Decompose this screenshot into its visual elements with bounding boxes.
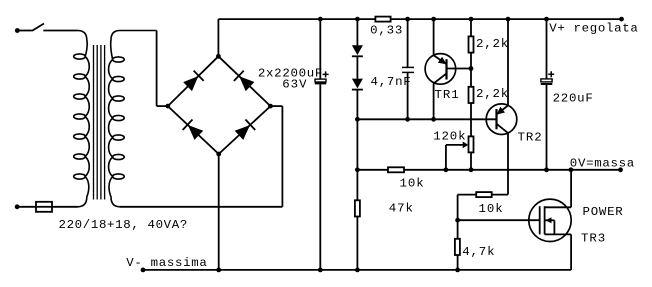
diode D5: [352, 45, 363, 55]
wire: [492, 194, 508, 196]
diode D4 (bridge bottom-right): [235, 125, 250, 140]
svg-text:220/18+18, 40VA?: 220/18+18, 40VA?: [59, 218, 188, 232]
wire: [470, 53, 472, 87]
wire: [17, 30, 32, 32]
node 0V terminal: [618, 167, 623, 172]
wire TR2 emitter: [507, 19, 509, 105]
wire: [271, 105, 283, 107]
wire V+ rail: [218, 18, 375, 20]
wire: [156, 31, 158, 107]
TR3 drain stub: [545, 206, 572, 208]
wire: [217, 19, 219, 56]
wire: [546, 19, 548, 79]
node: [431, 117, 436, 122]
wire: [17, 206, 36, 208]
svg-text:10k: 10k: [479, 202, 503, 216]
svg-text:4,7k: 4,7k: [462, 245, 494, 259]
svg-text:TR1: TR1: [435, 88, 459, 102]
node: [318, 268, 323, 273]
node: [216, 268, 221, 273]
svg-text:TR3: TR3: [581, 232, 605, 246]
node: [405, 17, 410, 22]
TR3 substrate arrow: [545, 219, 554, 221]
diode D2 (bridge top-right): [239, 76, 254, 91]
TR1 emitter arrow: [438, 57, 447, 65]
TR2 collector diagonal: [497, 124, 509, 133]
node: [431, 17, 436, 22]
wire TR3 drain: [570, 170, 572, 208]
polarity + C1: [323, 71, 329, 77]
wire: [356, 56, 358, 78]
svg-text:TR2: TR2: [518, 130, 542, 144]
diode D3 (bridge bottom-left): [188, 125, 203, 140]
wire: [52, 206, 78, 208]
transformer T1 core: [94, 45, 105, 200]
resistor R5 10k: [388, 167, 404, 172]
wire: [319, 19, 321, 79]
node: [469, 17, 474, 22]
node: [444, 167, 449, 172]
svg-text:V- massima: V- massima: [126, 256, 207, 270]
switch S1 blade: [32, 24, 44, 31]
trimmer R4 120k body: [469, 136, 474, 152]
transformer T1 primary winding: [78, 31, 90, 207]
fuse F1: [36, 202, 52, 212]
svg-text:47k: 47k: [389, 202, 413, 216]
svg-text:220uF: 220uF: [553, 92, 593, 106]
TR3 gate bar: [539, 206, 541, 234]
polarity + C3: [548, 71, 554, 77]
node: [355, 117, 360, 122]
node V- terminal: [141, 268, 146, 273]
wire: [281, 106, 283, 207]
wire TR2 collector: [507, 133, 509, 195]
node bridge left: [165, 104, 170, 109]
wire: [407, 19, 409, 67]
TR1 collector diagonal: [434, 73, 447, 83]
wire: [356, 90, 358, 120]
svg-text:V+ regolata: V+ regolata: [549, 22, 638, 36]
wire: [470, 19, 472, 36]
node: [355, 17, 360, 22]
wire: [407, 72, 409, 119]
fuse F1 terminal: [15, 204, 20, 209]
wire: [218, 154, 220, 270]
TR3 source stub: [545, 233, 572, 235]
node: [405, 117, 410, 122]
wire 0V: [357, 169, 388, 171]
node: [506, 17, 511, 22]
node: [544, 167, 549, 172]
diode D1 (bridge top-left): [183, 76, 198, 91]
svg-text:0,33: 0,33: [370, 24, 402, 38]
node V+ regolata terminal: [619, 17, 624, 22]
TR2 base bar: [495, 109, 497, 129]
resistor R1 0,33: [375, 17, 390, 22]
wire: [457, 255, 459, 270]
diode D6: [352, 79, 363, 89]
bridge edge wire: [218, 56, 270, 106]
node bridge top: [216, 54, 221, 59]
wire: [157, 105, 168, 107]
transformer T1 secondary winding: [109, 31, 157, 207]
wire TR1 emitter: [433, 19, 435, 55]
wire: [470, 152, 472, 169]
transformer T1 secondary loops: [113, 57, 125, 62]
resistor R8 47k: [355, 200, 360, 216]
R4 wiper arrow: [446, 144, 464, 146]
wire TR3 gate: [458, 219, 540, 221]
resistor R6 10k: [476, 192, 492, 197]
node bridge bottom: [216, 152, 221, 157]
wire TR1 collector: [433, 84, 435, 120]
wire: [120, 206, 283, 208]
transformer T1 primary loops: [74, 54, 86, 59]
wire: [470, 103, 472, 136]
svg-text:POWER: POWER: [583, 205, 624, 219]
TR2 emitter diagonal: [497, 106, 509, 115]
wire: [319, 84, 321, 270]
resistor R3 2,2k: [469, 87, 474, 103]
wire: [458, 194, 477, 196]
wire TR1 base: [447, 68, 472, 70]
resistor R2 2,2k: [469, 36, 474, 52]
TR3 channel bar: [544, 206, 546, 234]
transistor TR3 body: [529, 199, 571, 241]
switch S1 terminal: [15, 28, 20, 33]
wire 0V: [404, 169, 621, 171]
node: [355, 167, 360, 172]
wire: [546, 85, 548, 170]
node: [455, 268, 460, 273]
wire node B: [357, 118, 496, 120]
capacitor C3 220uF: [541, 79, 552, 82]
resistor R7 4,7k: [455, 239, 460, 255]
wire: [356, 119, 358, 200]
node: [318, 17, 323, 22]
node bridge right: [268, 104, 273, 109]
wire: [356, 217, 358, 270]
svg-text:2,2k: 2,2k: [476, 87, 508, 101]
wire R4 wiper: [445, 145, 447, 170]
transistor TR2 body: [486, 104, 517, 135]
wire: [457, 220, 459, 239]
TR2 emitter arrow: [497, 107, 506, 115]
wire V- massima: [143, 269, 571, 271]
svg-text:63V: 63V: [282, 78, 307, 92]
node: [469, 66, 474, 71]
svg-text:2,2k: 2,2k: [476, 37, 508, 51]
wire: [457, 195, 459, 221]
wire: [43, 30, 77, 32]
wire V+ rail: [391, 18, 622, 20]
bridge edge wire: [168, 106, 219, 154]
svg-text:120k: 120k: [433, 130, 465, 144]
TR1 emitter diagonal: [434, 55, 447, 64]
svg-text:4,7nF: 4,7nF: [371, 75, 411, 89]
svg-text:0V=massa: 0V=massa: [570, 157, 635, 171]
wire: [356, 19, 358, 45]
transistor TR1 body: [425, 54, 456, 85]
capacitor C2 4,7nF: [402, 66, 414, 68]
node: [544, 17, 549, 22]
node: [355, 268, 360, 273]
svg-text:10k: 10k: [400, 176, 424, 190]
bridge edge wire: [168, 56, 219, 106]
wire TR3 source: [570, 234, 572, 270]
TR1 base bar: [445, 59, 447, 79]
capacitor C1 2x2200uF: [315, 79, 326, 82]
node: [469, 167, 474, 172]
bridge edge wire: [219, 106, 271, 154]
node: [569, 167, 574, 172]
node gate: [455, 218, 460, 223]
